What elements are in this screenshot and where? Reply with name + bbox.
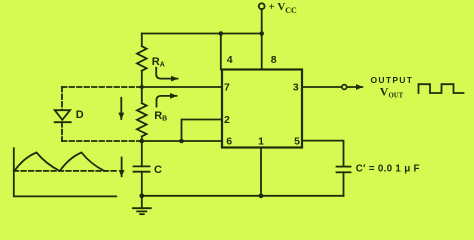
- diode D: [55, 110, 71, 122]
- square wave symbol: [419, 84, 464, 93]
- wire pin8 stub: [261, 34, 263, 70]
- wire rail RB to C: [141, 136, 143, 166]
- resistor RA: [137, 46, 147, 71]
- svg-text:C: C: [154, 164, 162, 176]
- output arrow: [347, 86, 362, 88]
- svg-text:D: D: [76, 109, 84, 121]
- junction dot RB bottom: [140, 139, 145, 144]
- wire C' to rail: [343, 172, 345, 196]
- dashed baseline: [14, 170, 118, 172]
- power terminal +Vcc: [259, 3, 265, 9]
- svg-text:4: 4: [227, 54, 233, 66]
- wire Vcc lead: [261, 9, 263, 33]
- capacitor C': [337, 167, 351, 173]
- current arrow RA: [156, 68, 177, 79]
- svg-text:7: 7: [224, 82, 230, 94]
- wire rail RA to RB: [141, 71, 143, 103]
- ground: [133, 196, 151, 214]
- svg-text:6: 6: [226, 135, 232, 147]
- junction dot pin2 pin6: [179, 139, 184, 144]
- wire C to ground rail: [141, 172, 143, 196]
- svg-text:2: 2: [224, 114, 230, 126]
- junction dot top rail left: [219, 31, 224, 36]
- svg-text:5: 5: [294, 135, 300, 147]
- wire pin3: [302, 86, 342, 88]
- capacitor C: [134, 166, 150, 171]
- resistor RB: [137, 103, 147, 136]
- wire pin4 stub: [220, 34, 222, 70]
- junction dot pin7: [140, 85, 144, 89]
- down arrow lower: [121, 158, 123, 177]
- junction dot pin1 rail: [259, 193, 264, 198]
- wire bottom rail: [142, 195, 344, 197]
- wire dashed diode anode: [61, 87, 63, 110]
- wire dashed lower horizontal: [62, 140, 142, 142]
- output terminal: [342, 85, 347, 90]
- wire pin5: [302, 141, 344, 167]
- wire dashed diode cathode: [61, 122, 63, 141]
- wire dashed upper horizontal: [62, 86, 142, 88]
- svg-text:C′ = 0.0 1 μ F: C′ = 0.0 1 μ F: [356, 164, 420, 175]
- junction dot ground: [139, 193, 144, 198]
- svg-text:3: 3: [293, 82, 299, 94]
- wire pin6: [142, 140, 222, 142]
- sawtooth waveform: [15, 153, 105, 172]
- wire pin2: [182, 120, 223, 142]
- down arrow upper: [120, 98, 122, 119]
- svg-text:1: 1: [258, 135, 264, 147]
- junction dot top rail right: [259, 31, 264, 36]
- svg-text:8: 8: [271, 54, 277, 66]
- wire rail above RA: [141, 34, 143, 47]
- current arrow RB: [157, 96, 177, 107]
- IC U1 555 timer: [222, 70, 302, 148]
- waveform graph axes: [14, 148, 116, 196]
- wire pin1: [260, 148, 262, 196]
- wire pin7: [142, 86, 222, 88]
- svg-text:OUTPUT: OUTPUT: [371, 75, 414, 85]
- wire top rail: [142, 33, 262, 35]
